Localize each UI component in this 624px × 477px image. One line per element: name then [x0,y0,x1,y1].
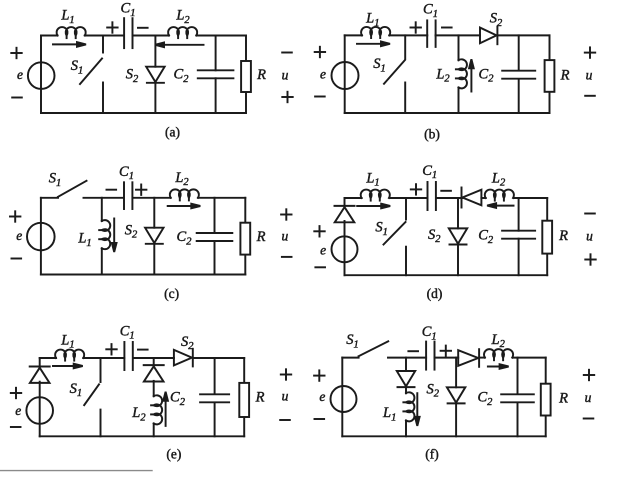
circuit (e): resistor R branch wires [243,358,245,436]
circuit (d): label R [558,228,568,244]
circuit (a): capacitor C1 [124,18,132,48]
circuit (c): wire top rail [41,197,245,199]
circuit (d): label S2 [428,227,441,245]
circuit (f): label R [558,391,568,407]
circuit (f): resistor R [541,384,551,416]
circuit (c): label R [256,229,266,245]
circuit (b): inductor L1 [361,27,390,38]
circuit (a): label R [256,67,266,83]
svg-text:u: u [282,389,289,404]
circuit (b): label C2 [479,66,495,84]
circuit (e): label L1 [60,332,74,350]
circuit (a): label L1 [60,8,74,26]
circuit (d): label e [320,242,326,257]
circuit (f): wire L1 to bottom rail [405,421,407,437]
circuit (a): capacitor C2 [198,70,234,78]
circuit (d): source polarity - (bottom) [315,266,325,268]
circuit (e): wire node to D2 [153,358,155,365]
circuit (a): wire top rail [41,35,246,37]
circuit (e): switch S1 [84,358,100,436]
circuit (f): wire node to D1 [405,358,407,371]
circuit (f): wire S2 to bottom rail [455,404,457,436]
circuit (d): diode S2 (cathode down) [449,228,467,244]
circuit (c): wire L1 to bottom rail [101,248,103,274]
circuit (d): label u [586,229,593,244]
circuit (e): wire bottom rail [40,435,245,437]
circuit (a): current arrow iL2 (left) [155,43,204,48]
circuit (e): capacitor C2 [200,394,229,402]
circuit (d): label L1 [365,171,379,189]
circuit (d): source polarity + (top) [314,226,324,236]
circuit (f): switch S1 (series blade) [359,341,389,356]
circuit (b): wire top rail [345,34,550,36]
circuit (c): inductor L2 [170,189,199,200]
circuit (d): caption (d) [427,286,443,301]
circuit (d): wire left branch upper [344,198,346,206]
circuit (f): capacitor C2 branch wires [517,358,519,437]
circuit (a): diode S2 (cathode down) [146,67,164,83]
svg-text:e: e [16,228,22,243]
circuit (f): wire left branch [341,358,343,437]
circuit (a): label u [282,68,289,83]
circuit (c): wire node to S2 [153,198,155,228]
circuit (e): diode S2 (conducting right) [174,349,193,367]
circuit (e): C1 polarity + (left) [106,344,116,354]
circuit (c): label e [16,228,22,243]
circuit (a): wire left branch with corners [40,36,42,114]
circuit (a): inductor L2 [168,27,197,38]
circuit (c): capacitor C2 branch wires [214,198,216,275]
circuit (e): current arrow iL1 (right) [53,364,83,369]
circuit (e): wire D2 to L2 [153,381,155,396]
circuit (c): source polarity + (top) [10,211,20,221]
circuit (e): wire diode to source to bottom rail [39,382,41,437]
circuit (d): wire node to S2 [457,198,459,228]
circuit (a): switch S1 [80,36,103,114]
svg-text:R: R [558,391,568,407]
circuit (b): switch S1 [384,35,405,113]
circuit (d): wire diode to source to bottom rail [344,221,346,275]
circuit (a): capacitor C2 branch wires [215,36,217,114]
circuit (d): wire S2 to bottom rail [457,245,459,275]
svg-text:R: R [256,67,266,83]
circuit (e): label C2 [170,390,186,408]
circuit (b): output polarity - (bottom) [585,95,595,97]
circuit (d): C1 polarity - (right) [441,190,451,192]
circuit (c): C1 polarity + (right) [136,185,146,195]
circuit (f): label L2 [491,332,506,350]
circuit (f): voltage source e [331,386,357,412]
svg-text:R: R [560,68,570,84]
circuit (c): capacitor C2 [197,233,233,241]
svg-text:R: R [255,390,265,406]
circuit (f): diode S2 (cathode down) [447,387,465,403]
circuit (b): wire L2 to bottom rail [458,88,460,114]
circuit (f): current arrow iL1 (down) [415,393,420,426]
circuit (d): current arrow iL2 (left) [487,203,513,208]
circuit (c): C1 polarity - (left) [107,189,117,191]
circuit (b): source polarity - (bottom) [315,96,325,98]
circuit (b): source polarity + (top) [315,47,325,57]
circuit (c): label L1 [77,231,91,249]
circuit (a): output polarity + (bottom) [282,92,292,102]
circuit (c): switch S1 (series blade) [58,181,87,197]
circuit (d): label C1 [422,163,437,181]
circuit (f): C1 polarity + (right) [441,346,451,356]
svg-text:e: e [15,403,21,418]
circuit (b): C1 polarity + (left) [411,22,421,32]
circuit (d): wire top rail [345,197,548,199]
circuit (a): wire bottom rail [41,112,246,114]
circuit (f): resistor R branch wires [545,358,547,437]
circuit (a): label S2 [126,67,139,85]
circuit (e): resistor R [239,383,249,417]
circuit (c): label S1 [49,171,62,189]
circuit (b): label S2 [490,11,503,29]
circuit (b): voltage source e [332,62,359,89]
circuit (e): voltage source e [26,397,53,424]
svg-text:(e): (e) [166,447,181,462]
circuit (b): label L2 [435,66,450,84]
circuit (d): capacitor C1 [428,182,436,210]
circuit (b): wire left branch [344,35,346,113]
circuit (b): caption (b) [424,127,440,142]
circuit (b): output polarity + (top) [585,47,595,57]
circuit (f): caption (f) [425,447,439,462]
circuit (a): C1 polarity - (right) [138,27,148,29]
circuit (d): C1 polarity + (left) [411,184,421,194]
circuit (e): output polarity + (top) [281,369,291,379]
svg-text:R: R [256,229,266,245]
circuit (f): label S1 [346,332,359,350]
circuit (d): inductor L2 [485,190,514,201]
circuit (f): label u [585,390,592,405]
circuit (a): label e [17,67,23,82]
svg-text:e: e [319,389,325,404]
circuit (c): voltage source e [27,223,55,251]
circuit (f): label C2 [477,390,493,408]
circuit (e): diode D1 (left branch, conducting up) [30,367,50,383]
circuit (f): wire D1 to L1 [405,387,407,393]
circuit (b): current arrow iL1 (right) [357,42,390,47]
circuit (e): wire L2 to bottom rail [153,424,155,437]
circuit (d): inductor L1 [361,190,390,201]
circuit (f): C1 polarity - (left) [408,350,418,352]
circuit (c): wire S2 to bottom rail [153,244,155,274]
circuit (b): capacitor C2 branch wires [518,35,520,113]
circuit (f): wire node to S2 [455,358,457,388]
svg-text:(a): (a) [165,125,180,140]
circuit (c): caption (c) [164,286,179,301]
circuit (f): wire bottom rail [342,435,545,437]
circuit (f): label L1 [382,405,396,423]
svg-text:u: u [586,229,593,244]
circuit (a): source polarity - (bottom) [12,97,22,99]
circuit (a): label C2 [174,67,190,85]
svg-text:(f): (f) [425,447,439,462]
circuit (d): output polarity - (top) [585,213,595,215]
circuit (a): wire S2 to bottom rail [154,83,156,113]
circuit (c): label L2 [174,170,189,188]
circuit (d): capacitor C2 branch wires [518,198,520,275]
circuit (c): resistor R [240,223,250,255]
circuit (c): current arrow iL1 (down) [112,219,117,253]
circuit (e): source polarity - (bottom) [11,426,21,428]
circuit (c): label S2 [125,222,138,240]
circuit (c): inductor L1 (vertical) [99,220,110,249]
circuit (f): current arrow iL2 (right) [488,364,509,369]
circuit (e): wire left branch upper [39,358,41,367]
circuit (b): label e [320,66,326,81]
circuit (a): resistor R [241,61,251,92]
circuit (f): label C1 [422,324,437,342]
circuit (e): capacitor C1 [124,342,132,370]
circuit (f): label e [319,389,325,404]
circuit (b): label L1 [365,11,379,29]
circuit (c): wire left branch [40,198,42,275]
circuit (a): inductor L1 [57,27,86,38]
circuit (f): source polarity + (top) [314,370,324,380]
circuit (f): output polarity + (top) [584,370,594,380]
circuit (b): label u [586,67,593,82]
circuit (d): label S1 [375,220,388,238]
circuit (c): diode S2 (cathode down) [145,228,163,244]
circuit (d): capacitor C2 [502,231,535,239]
circuit (c): label C1 [119,164,134,182]
circuit (f): diode D2 (top rail, conducting right) [458,349,479,367]
circuit (b): label S1 [373,56,386,74]
circuit (e): C1 polarity - (right) [138,349,148,351]
circuit (d): diode D1 (left branch, conducting up) [335,206,355,222]
circuit (e): label L2 [131,405,146,423]
circuit (b): node C1/S2 wire to L2 [458,35,460,60]
circuit (c): current arrow iL2 (right) [168,204,201,209]
circuit (e): label e [15,403,21,418]
circuit (e): source polarity + (top) [11,388,21,398]
circuit (f): capacitor C2 [501,394,534,402]
circuit (b): current arrow iL2 (up) [469,59,474,91]
circuit (e): diode D2 (conducting up) [144,365,164,381]
circuit (b): resistor R branch wires [549,35,551,113]
circuit (e): output polarity - (bottom) [280,419,290,421]
circuit (a): label C1 [121,1,136,19]
circuit (b): C1 polarity - (right) [442,27,452,29]
circuit (d): resistor R [542,221,552,254]
circuit (c): label C2 [177,229,193,247]
circuit (d): wire bottom rail [345,274,548,276]
svg-text:e: e [320,242,326,257]
circuit (c): label u [282,229,289,244]
circuit (f): inductor L1 (vertical) [403,392,414,421]
circuit (c): source polarity - (bottom) [12,258,22,260]
circuit (c): wire bottom rail [41,274,245,276]
circuit (f): source polarity - (bottom) [315,418,325,420]
circuit (d): voltage source e [332,236,358,262]
circuit (a): node between C1 and L2 / wire to S2 [154,36,156,67]
circuit (e): label C1 [120,324,135,342]
circuit (d): resistor R branch wires [546,198,548,275]
circuit (e): inductor L2 (vertical) [151,395,162,424]
circuit (d): label C2 [478,228,494,246]
circuit (c): output polarity + (top) [281,209,291,219]
circuit (e): inductor L1 [55,350,84,361]
circuit (d): switch S1 [384,198,407,275]
circuit (a): source polarity + (top) [11,48,21,58]
circuit (b): label C1 [423,2,438,20]
circuit (b): resistor R [545,60,555,92]
circuit (c): resistor R branch wires [244,198,246,275]
circuit (f): wire top rail [342,357,545,359]
circuit (a): voltage source e [28,62,55,89]
circuit (a): label S1 [71,58,84,76]
circuit (f): inductor L2 [484,349,513,360]
circuit (b): inductor L2 (vertical) [456,59,467,88]
circuit (c): wire node to L1 [101,198,103,221]
svg-text:e: e [17,67,23,82]
scan artifact: faint gray edge line bottom-left [0,470,152,472]
circuit (b): wire bottom rail [345,112,550,114]
circuit (c): capacitor C1 [124,182,132,209]
circuit (b): diode S2 (conducting right) [480,27,497,45]
svg-text:u: u [585,390,592,405]
circuit (e): label S2 [181,334,194,352]
circuit (f): diode D1 (cathode down) [397,371,415,387]
circuit (d): current arrow iL1 (right) [357,204,390,209]
circuit (b): capacitor C2 [502,71,535,79]
circuit (b): capacitor C1 [427,20,435,47]
circuit (f): capacitor C1 [426,342,434,370]
circuit (f): output polarity - (bottom) [584,418,594,420]
circuit (d): diode D2 (top rail, conducting left) [462,188,482,208]
svg-text:(b): (b) [424,127,440,142]
circuit (e): wire top rail [40,357,245,359]
svg-text:R: R [558,228,568,244]
svg-text:u: u [282,68,289,83]
circuit (e): caption (e) [166,447,181,462]
circuit (a): C1 polarity + (left) [107,22,117,32]
svg-text:(c): (c) [164,286,179,301]
svg-text:(d): (d) [427,286,443,301]
circuit (c): output polarity - (bottom) [282,256,292,258]
svg-text:u: u [282,229,289,244]
circuit (e): label R [255,390,265,406]
circuit (f): label S2 [427,381,440,399]
svg-text:u: u [586,67,593,82]
circuit (d): output polarity + (bottom) [585,254,595,264]
circuit (a): caption (a) [165,125,180,140]
circuit (e): capacitor C2 branch wires [214,358,216,436]
circuit (b): label R [560,68,570,84]
circuit (d): label L2 [491,171,506,189]
circuit (a): resistor R branch wires [245,36,247,114]
circuit (a): label L2 [175,8,190,26]
circuit (e): label S1 [70,381,83,399]
circuit (e): label u [282,389,289,404]
circuit (a): output polarity - (top) [282,52,292,54]
svg-text:e: e [320,66,326,81]
circuit (e): current arrow iL2 (up) [163,392,168,426]
circuit (a): current arrow iL1 (right) [53,42,86,47]
